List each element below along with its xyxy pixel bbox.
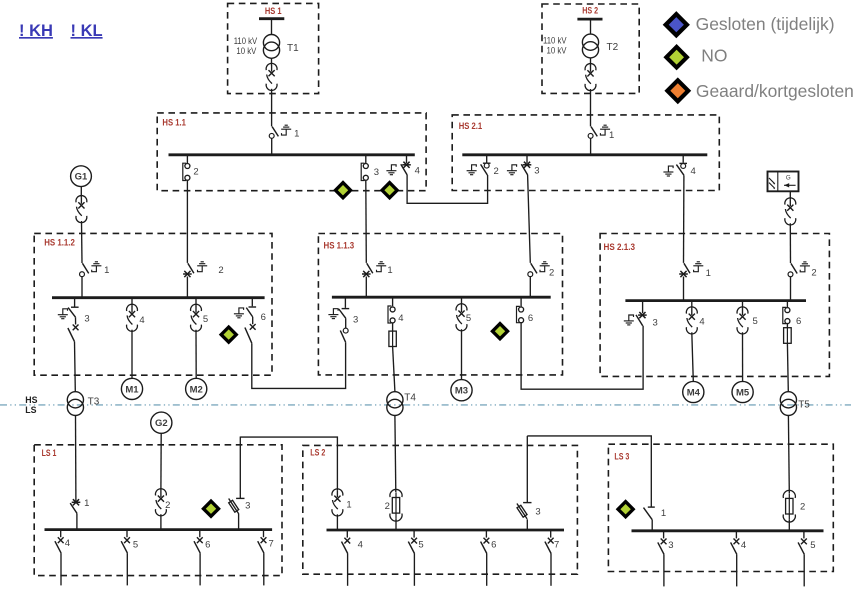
label LS 3 <box>614 452 629 462</box>
wire busbar to T2 <box>590 20 592 34</box>
svg-text:4: 4 <box>699 316 704 327</box>
motor M5 <box>732 381 753 402</box>
label 1 (HS 1.1.2) <box>104 265 109 276</box>
svg-text:LS: LS <box>25 405 36 415</box>
svg-text:LS 3: LS 3 <box>614 452 629 462</box>
label 5 (LS 2) <box>418 540 423 551</box>
label 3 (LS 2) <box>535 506 540 517</box>
breaker 1 (LS 2, withdrawable) <box>332 489 343 530</box>
label 4 (HS 1.1.3) <box>398 313 403 324</box>
label 5 (HS 1.1.3) <box>466 313 471 324</box>
busbar HS 1.1.2 <box>52 296 265 299</box>
svg-text:10 kV: 10 kV <box>236 46 257 56</box>
earthing switch (HS 2.1 sw4) <box>663 166 673 176</box>
feeder 4 (LS 1) <box>55 530 64 586</box>
link KH <box>19 22 53 40</box>
switch 2 (HS 1.1.3 incomer, open) <box>528 263 537 297</box>
label 2 (HS 2.1) <box>494 166 499 177</box>
feeder 4 (LS 2) <box>342 530 351 586</box>
wire T3 down to LS 1 sw1 <box>75 416 77 502</box>
label HS (net boundary) <box>25 395 37 405</box>
wire T4 down to LS 2 fuse <box>394 416 397 492</box>
label HS 1 <box>265 6 282 17</box>
feeder 5 (LS 1) <box>121 530 130 586</box>
switch 6 (HS 1.1.2, cable feeder) <box>245 298 256 344</box>
svg-text:2: 2 <box>811 268 816 279</box>
svg-text:6: 6 <box>491 540 496 551</box>
svg-text:7: 7 <box>554 540 559 551</box>
label 110 kV / 10 kV (T1) <box>234 36 258 56</box>
earthing switch (HS 1.1.2 sw3) <box>58 309 68 319</box>
legend text: Geaard/kortgesloten <box>696 81 854 101</box>
station box HS 2 <box>542 4 639 93</box>
earthing switch (HS 1.1.2 sw6) <box>234 308 244 318</box>
station box LS 2 <box>303 445 578 574</box>
HS/LS boundary line <box>0 404 851 406</box>
generator G2 <box>151 412 172 433</box>
svg-text:1: 1 <box>609 130 614 141</box>
breaker T1 (withdrawable) <box>266 63 277 90</box>
switch 1 (HS 2.1 incomer, open) <box>588 127 597 155</box>
wire sw4 to fuse <box>392 323 394 331</box>
svg-text:10 kV: 10 kV <box>547 46 568 56</box>
svg-text:3: 3 <box>245 501 250 512</box>
svg-text:NO: NO <box>701 46 727 66</box>
label 4 (LS 3) <box>741 540 746 551</box>
wire to M5 <box>742 332 744 381</box>
svg-text:5: 5 <box>810 540 815 551</box>
svg-text:! KL: ! KL <box>71 22 103 40</box>
feeder 4 (LS 3) <box>731 531 740 587</box>
label HS 2.1.3 <box>604 242 636 252</box>
label 4 (HS 1.1) <box>415 166 420 177</box>
switch 3 (HS 1.1, open truck disconnector) <box>361 155 368 181</box>
svg-text:6: 6 <box>528 313 533 324</box>
svg-text:110 kV: 110 kV <box>543 36 567 46</box>
label 4 (LS 1) <box>65 538 70 549</box>
svg-text:Geaard/kortgesloten: Geaard/kortgesloten <box>696 81 854 101</box>
switch 1 (HS 1.1.3 incomer, closed) <box>362 263 373 297</box>
svg-text:2: 2 <box>218 265 223 276</box>
label 1 (HS 2.1.3) <box>706 268 711 279</box>
wire HS 1.1.3 sw6 to HS 2.1.3 sw3 (cable) <box>521 323 643 389</box>
switch 2 (HS 1.1, open truck disconnector) <box>183 155 190 181</box>
busbar HS 1.1 <box>169 153 415 156</box>
label 2 (LS 3) <box>800 502 805 513</box>
station box HS 2.1 <box>452 115 719 191</box>
earthing switch (HS 1.1.3 sw3) <box>328 309 338 319</box>
label 3 (HS 2.1) <box>534 166 539 177</box>
legend marker: Gesloten (tijdelijk) <box>663 11 690 38</box>
label LS 1 <box>42 448 57 458</box>
svg-text:4: 4 <box>741 540 746 551</box>
svg-text:1: 1 <box>706 268 711 279</box>
legend marker: Geaard/kortgesloten <box>664 77 691 104</box>
svg-text:1: 1 <box>84 498 89 509</box>
svg-text:6: 6 <box>796 316 801 327</box>
legend text: Gesloten (tijdelijk) <box>696 14 835 34</box>
svg-text:T5: T5 <box>798 399 810 410</box>
svg-text:4: 4 <box>139 315 144 326</box>
svg-text:1: 1 <box>387 265 392 276</box>
svg-text:G1: G1 <box>75 172 88 183</box>
svg-text:M1: M1 <box>125 384 139 395</box>
switch 3 (HS 2.1.3, cable feeder, closed) <box>636 301 647 326</box>
svg-text:2: 2 <box>494 166 499 177</box>
NO diamond (HS 1.1.3 sw6) <box>490 321 510 341</box>
wire to M2 <box>195 330 197 379</box>
earthing switch (HS 1.1.2 sw2) <box>197 262 207 272</box>
breaker 4 (HS 1.1.2, withdrawable, to M1) <box>127 298 138 332</box>
earthing switch (HS 2.1.3 sw1) <box>693 262 703 272</box>
svg-text:HS 1.1.3: HS 1.1.3 <box>324 240 355 250</box>
svg-text:! KH: ! KH <box>19 22 53 40</box>
wire G1 to breaker <box>80 187 82 198</box>
label 1 (LS 1) <box>84 498 89 509</box>
label 7 (LS 1) <box>268 538 273 549</box>
busbar LS 1 <box>45 528 273 531</box>
wire PV breaker down to HS 2.1.3 sw2 <box>789 223 791 263</box>
station box HS 1.1.3 <box>318 234 562 375</box>
wire tie HS 1.1 sw4 to HS 2.1 sw2 <box>407 175 488 203</box>
svg-text:LS 2: LS 2 <box>310 447 325 457</box>
svg-text:HS 2: HS 2 <box>582 6 598 17</box>
wire G2 breaker to LS 1 busbar <box>160 514 162 529</box>
wire HS 2.1 sw4 down to HS 2.1.3 sw1 <box>683 175 685 263</box>
label 1 (HS 1.1) <box>294 128 299 139</box>
svg-text:HS: HS <box>25 395 37 405</box>
feeder 5 (LS 3) <box>798 531 807 587</box>
switch 3 (HS 1.1.2 to T3) <box>68 298 79 342</box>
label 2 (LS 1) <box>165 500 170 511</box>
label 1 (HS 1.1.3) <box>387 265 392 276</box>
label HS 1.1.2 <box>44 238 75 248</box>
label 1 (LS 2) <box>346 499 351 510</box>
label LS 2 <box>310 447 325 457</box>
breaker T2 (withdrawable) <box>585 64 596 91</box>
label HS 1.1 <box>162 118 186 128</box>
svg-text:2: 2 <box>193 167 198 178</box>
breaker 5 (HS 1.1.3, withdrawable, to M3) <box>456 297 467 331</box>
svg-text:M4: M4 <box>687 387 701 398</box>
switch 1 (LS 3, open) <box>644 507 655 531</box>
switch 1 (HS 1.1 incomer, open) <box>269 127 278 155</box>
wire HS 1.1.2 sw3 down to T3 <box>74 342 77 392</box>
breaker 5 (HS 2.1.3, withdrawable, to M5) <box>737 301 748 334</box>
busbar HS 1.1.3 <box>332 296 551 299</box>
transformer T3 <box>67 392 99 416</box>
switch 6 (HS 1.1.3, truck disconnector, cable) <box>517 297 524 323</box>
breaker G1 (withdrawable) <box>76 196 87 223</box>
svg-text:M2: M2 <box>190 384 203 395</box>
svg-text:3: 3 <box>374 167 379 178</box>
station box HS 1.1 <box>157 113 426 191</box>
svg-text:T3: T3 <box>88 396 100 407</box>
switch 4 (HS 2.1, open) <box>676 155 687 175</box>
svg-text:1: 1 <box>294 128 299 139</box>
busbar LS 3 <box>632 529 824 532</box>
motor M3 <box>451 380 472 401</box>
breaker 5 (HS 1.1.2, withdrawable, to M2) <box>191 298 202 332</box>
transformer T2 <box>582 34 618 58</box>
svg-text:4: 4 <box>691 166 696 177</box>
label 110 kV / 10 kV (T2) <box>543 36 567 56</box>
label 3 (HS 1.1.2) <box>84 313 89 324</box>
wire PV to breaker <box>789 191 791 199</box>
svg-text:5: 5 <box>752 316 757 327</box>
label 5 (LS 3) <box>810 540 815 551</box>
busbar HS 2 <box>577 18 602 21</box>
motor M1 <box>121 378 142 399</box>
svg-text:HS 2.1.3: HS 2.1.3 <box>604 242 636 252</box>
label 3 (LS 3) <box>668 540 673 551</box>
station box HS 2.1.3 <box>600 234 829 377</box>
label 5 (LS 1) <box>133 540 138 551</box>
transformer T5 <box>780 392 810 416</box>
station box HS 1.1.2 <box>34 233 272 375</box>
motor M2 <box>186 378 207 399</box>
wire switch 2 down to HS 1.1.2 <box>186 181 188 263</box>
wire G2 to breaker <box>160 433 162 490</box>
busbar LS 2 <box>327 529 565 532</box>
switch 3 (LS 1, open fuse-switch) <box>227 437 245 530</box>
svg-text:3: 3 <box>534 166 539 177</box>
svg-text:G: G <box>786 175 791 182</box>
label 6 (HS 2.1.3) <box>796 316 801 327</box>
label 5 (HS 1.1.2) <box>203 314 208 325</box>
wire LS 1 sw3 to LS 2 sw1 <box>240 437 337 490</box>
svg-text:7: 7 <box>268 538 273 549</box>
transformer T1 <box>263 35 299 59</box>
busbar HS 1 <box>259 17 284 20</box>
legend text: NO <box>701 46 727 66</box>
svg-text:5: 5 <box>203 314 208 325</box>
feeder 6 (LS 1) <box>194 530 203 586</box>
switch 3 (HS 1.1.3, cable feeder) <box>339 297 349 342</box>
label 6 (HS 1.1.3) <box>528 313 533 324</box>
svg-text:2: 2 <box>165 500 170 511</box>
label 7 (LS 2) <box>554 540 559 551</box>
svg-text:T2: T2 <box>607 42 619 53</box>
earthing switch (HS 1.1.2 sw1) <box>91 262 101 272</box>
label 4 (HS 1.1.2) <box>139 315 144 326</box>
svg-text:4: 4 <box>398 313 403 324</box>
svg-text:5: 5 <box>133 540 138 551</box>
fuse (HS 2.1.3 sw6) <box>784 328 792 344</box>
label 6 (LS 2) <box>491 540 496 551</box>
label 3 (HS 1.1.3) <box>353 315 358 326</box>
svg-text:2: 2 <box>385 501 390 512</box>
label 1 (LS 3) <box>661 508 666 519</box>
switch 3 (LS 2, open fuse-switch) <box>515 436 532 530</box>
wire HS 2.1.3 sw6 down to T5 <box>786 343 789 391</box>
svg-text:4: 4 <box>358 540 363 551</box>
feeder 7 (LS 1) <box>258 530 267 586</box>
label LS (net boundary) <box>25 405 36 415</box>
wire T2 breaker down to HS 2.1 <box>590 89 592 126</box>
svg-text:HS 1.1.2: HS 1.1.2 <box>44 238 75 248</box>
switch 2 (HS 1.1.2 incomer, closed) <box>183 263 194 297</box>
svg-text:M3: M3 <box>455 386 468 397</box>
NO diamond (LS 3 sw1) <box>616 499 636 519</box>
label 6 (LS 1) <box>205 540 210 551</box>
svg-text:110 kV: 110 kV <box>234 36 258 46</box>
switch 2 (HS 2.1.3 incomer, open) <box>788 263 797 300</box>
NO diamond (HS 1.1.2 sw6) <box>219 325 239 345</box>
label 2 (HS 1.1.3) <box>549 268 554 279</box>
label 3 (LS 1) <box>245 501 250 512</box>
generator G1 <box>71 166 92 187</box>
earthing switch (HS 1.1 sw4) <box>386 165 396 175</box>
transformer T4 <box>387 392 417 416</box>
wire HS 2.1 sw3 down to HS 1.1.3 sw2 <box>528 175 531 263</box>
switch 1 (LS 1, closed, from T3) <box>70 499 80 529</box>
svg-text:3: 3 <box>353 315 358 326</box>
svg-text:T1: T1 <box>287 43 299 54</box>
svg-text:Gesloten (tijdelijk): Gesloten (tijdelijk) <box>696 14 835 34</box>
switch 4 (HS 1.1.3, truck disconnector to T4) <box>388 297 395 323</box>
label 3 (HS 2.1.3) <box>653 317 658 328</box>
wire HS 1.1.2 sw6 to HS 1.1.3 sw3 (cable) <box>252 342 346 388</box>
feeder 6 (LS 2) <box>481 530 490 586</box>
svg-text:4: 4 <box>65 538 70 549</box>
svg-text:5: 5 <box>466 313 471 324</box>
label HS 1.1.3 <box>324 240 355 250</box>
label HS 2 <box>582 6 598 17</box>
switch 1 (HS 2.1.3 incomer, closed) <box>679 263 690 300</box>
wire switch 3 down to HS 1.1.3 <box>365 181 368 263</box>
label 6 (HS 1.1.2) <box>261 312 266 323</box>
earthing switch (HS 2.1.3 sw2) <box>800 262 810 272</box>
svg-text:1: 1 <box>104 265 109 276</box>
wire busbar to T1 <box>271 20 273 35</box>
feeder 7 (LS 2) <box>545 530 554 586</box>
label 4 (HS 2.1) <box>691 166 696 177</box>
earthing switch (HS 1.1 sw1) <box>281 125 291 135</box>
label 4 (HS 2.1.3) <box>699 316 704 327</box>
motor M4 <box>683 381 704 402</box>
earthing switch (HS 2.1 sw3) <box>507 165 517 175</box>
fuse 2 (LS 3, withdrawable, from T5) <box>783 490 795 530</box>
link KL <box>71 22 103 40</box>
svg-text:4: 4 <box>415 166 420 177</box>
svg-text:6: 6 <box>261 312 266 323</box>
PV generator unit <box>768 172 799 192</box>
label 2 (LS 2) <box>385 501 390 512</box>
NO diamond (at HS 1.1 sw4) <box>380 180 400 200</box>
wire sw6 to fuse <box>786 323 788 327</box>
svg-text:G2: G2 <box>155 418 168 429</box>
feeder 5 (LS 2) <box>408 530 417 586</box>
station box HS 1 <box>228 3 319 93</box>
breaker G2 (withdrawable) <box>155 489 166 516</box>
earthing switch (HS 2.1.3 sw3) <box>624 315 634 325</box>
svg-text:M5: M5 <box>736 387 750 398</box>
svg-text:3: 3 <box>535 506 540 517</box>
wire to M1 <box>131 330 133 379</box>
label HS 2.1 <box>459 121 483 131</box>
label 1 (HS 2.1) <box>609 130 614 141</box>
svg-text:6: 6 <box>205 540 210 551</box>
legend marker: NO <box>663 44 689 70</box>
svg-text:2: 2 <box>549 268 554 279</box>
breaker 4 (HS 2.1.3, withdrawable, to M4) <box>686 301 697 334</box>
wire LS 2 sw3 to LS 3 sw1 <box>527 436 651 507</box>
wire G1 breaker down to HS 1.1.2 <box>81 221 84 263</box>
fuse (HS 1.1.3 sw4) <box>389 331 396 346</box>
station box LS 1 <box>34 445 282 576</box>
wire to M4 <box>692 332 694 381</box>
busbar HS 2.1 <box>462 153 707 156</box>
svg-text:3: 3 <box>668 540 673 551</box>
svg-text:1: 1 <box>661 508 666 519</box>
busbar HS 2.1.3 <box>625 299 806 302</box>
wire T5 down to LS 3 fuse <box>787 416 790 493</box>
earthing switch (HS 1.1.3 sw2) <box>540 262 550 272</box>
earthing switch (HS 2.1 sw1) <box>600 125 610 135</box>
svg-text:1: 1 <box>346 499 351 510</box>
switch 3 (HS 2.1, closed) <box>521 155 531 175</box>
svg-text:HS 1.1: HS 1.1 <box>162 118 186 128</box>
switch 4 (HS 1.1, closed) <box>401 155 411 175</box>
label 2 (HS 1.1.2) <box>218 265 223 276</box>
wire T1 breaker down to HS 1.1 <box>271 89 273 127</box>
switch 6 (HS 2.1.3, truck disconnector to T5) <box>783 301 790 324</box>
wire T1 to breaker <box>271 59 273 66</box>
svg-text:3: 3 <box>653 317 658 328</box>
svg-text:3: 3 <box>84 313 89 324</box>
wire T2 to breaker <box>590 58 592 65</box>
svg-text:2: 2 <box>800 502 805 513</box>
label 5 (HS 2.1.3) <box>752 316 757 327</box>
NO diamond (left of HS 1.1 sw3) <box>333 180 353 200</box>
label 2 (HS 2.1.3) <box>811 268 816 279</box>
label 3 (HS 1.1) <box>374 167 379 178</box>
station box LS 3 <box>608 444 833 571</box>
label 4 (LS 2) <box>358 540 363 551</box>
svg-text:HS 1: HS 1 <box>265 6 282 17</box>
feeder 3 (LS 3) <box>658 531 667 587</box>
earthing switch (HS 1.1.3 sw1) <box>376 262 386 272</box>
earthing switch (HS 2.1 sw2) <box>467 165 477 175</box>
NO diamond (LS 1 sw3) <box>201 499 221 519</box>
switch 1 (HS 1.1.2 incomer, open) <box>80 263 89 297</box>
fuse 2 (LS 2, withdrawable, from T4) <box>390 489 402 530</box>
svg-text:LS 1: LS 1 <box>42 448 57 458</box>
wire to M3 <box>461 329 463 379</box>
svg-text:T4: T4 <box>404 393 416 404</box>
label 2 (HS 1.1) <box>193 167 198 178</box>
switch 2 (HS 2.1, open) <box>481 155 491 175</box>
svg-text:HS 2.1: HS 2.1 <box>459 121 483 131</box>
svg-text:5: 5 <box>418 540 423 551</box>
wire HS 1.1.3 sw4 down to T4 <box>393 347 395 392</box>
breaker PV (withdrawable) <box>785 198 796 225</box>
